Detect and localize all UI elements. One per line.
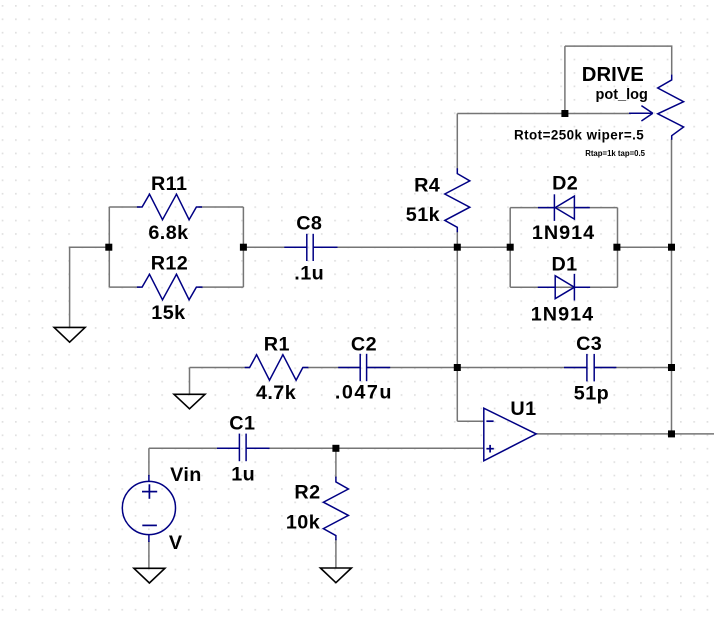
wire stub to left ground	[70, 247, 109, 327]
voltage source Vin	[122, 481, 175, 534]
svg-text:DRIVE: DRIVE	[582, 64, 644, 86]
node junction diode box right	[613, 244, 620, 251]
svg-text:51k: 51k	[406, 204, 441, 226]
svg-text:R1: R1	[264, 334, 290, 356]
node junction pot vertical main row	[668, 244, 675, 251]
svg-text:1N914: 1N914	[532, 222, 595, 244]
wire diode box top edge	[510, 207, 617, 209]
potentiometer wiper arrow	[629, 112, 653, 114]
resistor R4	[445, 168, 470, 232]
svg-text:V: V	[169, 532, 183, 554]
wire op-amp noninv row	[149, 447, 239, 449]
wire R11 row leads	[109, 206, 140, 208]
wire vertical feedback node x457	[456, 247, 458, 421]
svg-text:4.7k: 4.7k	[256, 382, 297, 404]
node junction output	[668, 430, 675, 437]
node junction feedback mid row	[454, 364, 461, 371]
wire mid row from ground corner to R1	[190, 367, 251, 369]
wire R2 bottom to ground	[335, 539, 337, 568]
wire to op-amp inverting input	[457, 420, 484, 422]
wire R4 bottom lead	[456, 231, 458, 247]
node junction R4 bottom	[454, 244, 461, 251]
wire diode box bottom edge	[510, 286, 617, 288]
node junction mid row pot vertical	[668, 364, 675, 371]
svg-text:C2: C2	[351, 334, 377, 356]
wire Vin bottom to ground	[148, 541, 150, 568]
svg-text:R12: R12	[151, 253, 189, 275]
capacitor C3	[564, 367, 587, 369]
resistor R1	[245, 355, 309, 381]
ground G1 left	[54, 327, 85, 342]
wire drop to ground G2	[189, 368, 191, 395]
wire R11/R12 box left vertical	[108, 207, 110, 287]
wire main row diode box to pot	[618, 246, 672, 248]
svg-text:C8: C8	[296, 213, 322, 235]
svg-text:Rtap=1k tap=0.5: Rtap=1k tap=0.5	[585, 149, 645, 158]
wire mid row C3 to pot vertical	[595, 367, 672, 369]
svg-text:Rtot=250k wiper=.5: Rtot=250k wiper=.5	[514, 128, 644, 143]
svg-text:R2: R2	[294, 482, 320, 504]
node junction wiper	[561, 110, 568, 117]
capacitor C8	[284, 246, 307, 248]
wire R4 top lead	[456, 114, 458, 171]
svg-text:C3: C3	[576, 333, 602, 355]
svg-text:pot_log: pot_log	[596, 87, 648, 103]
wire vertical from top row down to wiper node	[564, 46, 566, 113]
svg-text:6.8k: 6.8k	[148, 222, 189, 244]
svg-text:R4: R4	[414, 175, 440, 197]
diode D1	[538, 286, 555, 288]
wire mid row R1 to C2	[303, 367, 360, 369]
wire R2 top lead	[335, 448, 337, 477]
potentiometer DRIVE body	[658, 75, 684, 140]
svg-text:D2: D2	[552, 173, 578, 195]
wire diode box right vertical	[617, 208, 619, 288]
wire R11/R12 box right vertical	[242, 207, 244, 287]
wire main row left segment	[243, 246, 306, 248]
wire diode box left vertical	[509, 208, 511, 288]
svg-text:51p: 51p	[574, 383, 609, 405]
svg-text:10k: 10k	[286, 512, 321, 534]
svg-text:15k: 15k	[151, 302, 186, 324]
wire op-amp output row	[536, 433, 714, 435]
capacitor C2	[338, 367, 360, 369]
resistor R11	[137, 194, 202, 220]
ground G2 mid row	[174, 394, 205, 409]
ground G4 below R2	[320, 568, 351, 583]
svg-text:Vin: Vin	[170, 464, 202, 486]
resistor R12	[137, 274, 203, 300]
ground G3 below Vin	[134, 568, 165, 583]
diode D2	[538, 207, 554, 209]
wire top-right horizontal to pot	[565, 46, 672, 75]
svg-text:.047u: .047u	[335, 382, 393, 404]
svg-text:C1: C1	[229, 413, 255, 435]
wire main row after C8	[314, 246, 510, 248]
wire R12 row leads	[109, 286, 140, 288]
resistor R2	[323, 477, 348, 541]
wire wiper row	[457, 113, 631, 115]
svg-text:1N914: 1N914	[531, 303, 594, 325]
svg-text:R11: R11	[151, 173, 187, 195]
capacitor C1	[217, 447, 239, 449]
wire mid row C2 to C3	[367, 367, 586, 369]
svg-text:.1u: .1u	[294, 262, 324, 284]
node junction R11 right	[240, 244, 247, 251]
svg-text:U1: U1	[510, 398, 536, 420]
node junction C1/R2	[332, 445, 339, 452]
wire pot vertical down	[671, 139, 673, 434]
node junction R11 left	[105, 244, 112, 251]
node junction diode box left	[507, 244, 514, 251]
svg-text:1u: 1u	[231, 464, 255, 486]
op-amp U1	[484, 408, 536, 461]
svg-text:D1: D1	[552, 253, 578, 275]
wire Vin top lead	[148, 448, 150, 476]
